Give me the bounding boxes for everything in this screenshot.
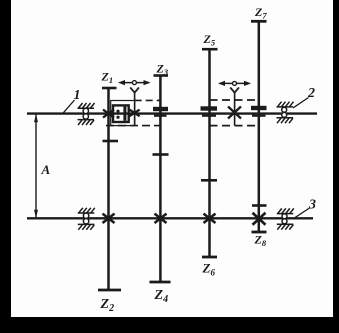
- gear Z5/Z6 mesh tick: [201, 179, 217, 182]
- bearing support shaft2 right: [277, 102, 294, 124]
- clutch block outline: [111, 101, 135, 126]
- black margin left: [0, 0, 11, 333]
- pinion bar on shaft 2 at Z3: [153, 107, 168, 111]
- svg-text:A: A: [41, 162, 51, 177]
- gear line Z3/Z4 (vertical): [159, 75, 162, 282]
- bearing support shaft3 left: [78, 208, 95, 230]
- svg-text:2: 2: [307, 86, 315, 101]
- bearing support shaft2 left: [78, 103, 95, 125]
- pinion lower tick at Z5: [202, 115, 216, 117]
- gear line Z5/Z6 (vertical): [208, 49, 211, 257]
- mesh cross at clutch stem x shaft 2: [129, 110, 139, 117]
- mesh cross at stem 2 x shaft 2: [228, 107, 241, 119]
- mesh cross at Z1 x shaft 2: [103, 110, 114, 118]
- slide range dashed top line right: [210, 99, 259, 101]
- mesh cross at Z2 x shaft 3: [103, 214, 115, 223]
- gear Z1 top tick: [102, 87, 117, 90]
- mesh cross at Z8 x shaft 3: [253, 213, 266, 225]
- pinion lower tick at Z7: [252, 115, 266, 117]
- pinion lower tick at Z3: [154, 115, 167, 117]
- shaft 3 (lower horizontal shaft): [27, 217, 313, 219]
- fork stem right: [234, 92, 236, 125]
- leader line label 2: [293, 98, 309, 108]
- fork V left: [130, 87, 139, 92]
- leader line label 1: [63, 100, 75, 113]
- svg-text:3: 3: [308, 198, 316, 213]
- svg-text:1: 1: [74, 88, 81, 103]
- bearing support shaft3 right: [277, 208, 294, 229]
- black margin bottom: [0, 317, 339, 333]
- slide range dashed top line left: [135, 99, 161, 101]
- pinion bar on shaft 2 at Z5: [201, 106, 218, 110]
- gear Z3/Z4 mesh tick: [153, 153, 169, 156]
- dimension A arrow up: [34, 114, 38, 122]
- clutch inner dot lower: [116, 116, 119, 119]
- shift double arrow right: [218, 81, 251, 86]
- black margin right: [333, 0, 339, 333]
- shift double arrow left: [118, 80, 151, 85]
- shaft 1-2 (upper horizontal shaft): [27, 112, 317, 114]
- gear Z6 bottom tick: [202, 256, 217, 259]
- clutch inner bar: [123, 107, 126, 121]
- gear Z2 bottom tick: [98, 289, 121, 292]
- gear Z5 top tick: [202, 48, 218, 51]
- gear Z8 top tick: [252, 204, 267, 207]
- gear Z8 bottom tick: [252, 231, 267, 234]
- dimension A line: [35, 115, 37, 218]
- gear line Z7/Z8 (vertical): [258, 21, 261, 232]
- gear Z7 top tick: [251, 20, 267, 23]
- gear Z1/Z2 mesh tick: [103, 140, 119, 143]
- slide range dashed bottom line right: [210, 125, 259, 127]
- clutch inner dot upper: [116, 110, 119, 113]
- fork V right: [230, 87, 239, 92]
- fork stem left: [134, 92, 136, 125]
- dimension A arrow down: [34, 210, 38, 218]
- leader line label 3: [295, 208, 310, 218]
- gear line Z1/Z2 (vertical): [107, 88, 110, 291]
- slide range dashed bottom line left: [106, 125, 160, 127]
- mesh cross at Z4 x shaft 3: [155, 214, 167, 223]
- gear Z4 bottom tick: [150, 281, 171, 284]
- pinion bar on shaft 2 at Z7: [251, 106, 267, 110]
- clutch block body: [113, 105, 129, 122]
- mesh cross at Z6 x shaft 3: [204, 214, 216, 223]
- gear Z3 top tick: [154, 74, 169, 77]
